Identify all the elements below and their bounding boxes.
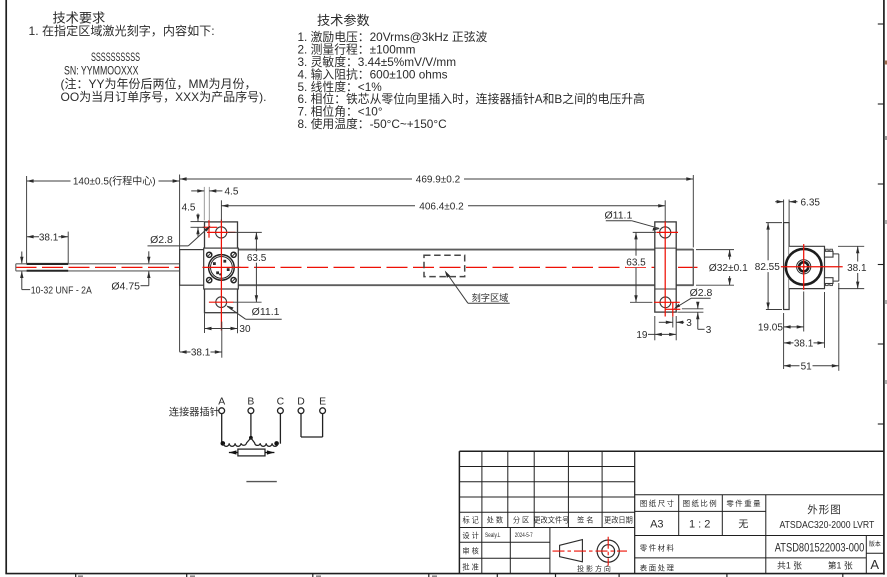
- dim Ø11.1 right leader: [606, 220, 632, 222]
- dim 3 vertical: [682, 308, 704, 310]
- svg-text:签 名: 签 名: [577, 516, 593, 525]
- svg-text:外形图: 外形图: [807, 504, 842, 516]
- svg-text:批 准: 批 准: [462, 563, 478, 572]
- side view upper tab: [826, 249, 829, 251]
- dim 6.35: [783, 200, 785, 223]
- dim 469.9±0.2: [692, 175, 694, 247]
- svg-text:连接器插针: 连接器插针: [169, 405, 220, 418]
- junction dot B: [249, 436, 253, 440]
- left block vertical red centerline: [220, 220, 222, 331]
- left block small hole red crosshair: [203, 226, 218, 228]
- secondary coil L2 (B-C): [251, 438, 278, 447]
- info grid verticals: [678, 495, 680, 536]
- wire pin B: [250, 414, 252, 438]
- svg-text:Ø11.1: Ø11.1: [252, 306, 280, 318]
- connector corner screws: [207, 252, 212, 257]
- svg-text:共1 张: 共1 张: [777, 560, 802, 570]
- main tube lower edge: [238, 284, 655, 286]
- right block vertical red centerline: [664, 221, 666, 317]
- right block bottom hole: [660, 297, 671, 308]
- svg-text:D: D: [297, 397, 305, 408]
- svg-text:A3: A3: [650, 518, 663, 530]
- side view center bore: [799, 262, 808, 271]
- svg-text:处 数: 处 数: [487, 516, 503, 525]
- svg-text:Ø32±0.1: Ø32±0.1: [709, 263, 748, 274]
- secondary coil L1 (A-B): [223, 438, 251, 447]
- svg-text:3: 3: [706, 325, 712, 336]
- dim 51: [838, 283, 840, 371]
- right border cut zone letters: [885, 61, 887, 65]
- side view red crosshair: [781, 266, 843, 268]
- svg-text:ATSDAC320-2000 LVRT: ATSDAC320-2000 LVRT: [780, 520, 875, 531]
- dim Ø32±0.1: [696, 249, 734, 251]
- right block top hole: [660, 227, 671, 238]
- svg-text:A: A: [218, 397, 225, 408]
- svg-text:140±0.5(行程中心): 140±0.5(行程中心): [73, 175, 156, 188]
- dim 406.4±0.2: [220, 200, 222, 220]
- sheet right border: [883, 0, 885, 575]
- wire D-E link: [301, 436, 323, 438]
- svg-text:1. 在指定区域激光刻字，内容如下:: 1. 在指定区域激光刻字，内容如下:: [29, 23, 215, 38]
- main tube upper edge: [238, 249, 655, 251]
- pin terminal C: [278, 408, 284, 414]
- projection red centerlines: [553, 550, 628, 552]
- junction dot C: [274, 441, 279, 446]
- svg-text:零件重量: 零件重量: [726, 499, 762, 508]
- svg-text:19.05: 19.05: [758, 323, 783, 334]
- side view middle circle: [797, 260, 811, 274]
- svg-text:38.1: 38.1: [191, 348, 211, 359]
- revision table verticals: [481, 451, 483, 527]
- dim 38.1 side right: [838, 245, 864, 247]
- ext line body start: [179, 175, 181, 352]
- svg-text:3: 3: [686, 318, 692, 329]
- left block bottom mounting hole: [216, 297, 227, 308]
- svg-text:51: 51: [801, 361, 813, 372]
- svg-text:更改日期: 更改日期: [604, 516, 633, 525]
- pin terminal A: [219, 408, 225, 414]
- svg-text:零件材料: 零件材料: [640, 544, 676, 553]
- dim Ø4.75 leader: [148, 251, 150, 263]
- pin terminal E: [320, 408, 326, 414]
- svg-text:标 记: 标 记: [463, 516, 479, 525]
- core arrow right: [265, 452, 274, 454]
- svg-text:(注：YY为年份后两位，MM为月份，: (注：YY为年份后两位，MM为月份，: [61, 76, 257, 91]
- svg-text:38.1: 38.1: [39, 232, 59, 243]
- svg-text:第1 张: 第1 张: [828, 559, 853, 570]
- junction dot A: [221, 441, 226, 446]
- svg-text:E: E: [319, 397, 326, 408]
- left block connector horizontal red centerline: [203, 266, 241, 268]
- engraving leader arrow: [446, 273, 468, 304]
- svg-text:2024-5-7: 2024-5-7: [515, 532, 533, 539]
- dim 4.5 horizontal: [203, 187, 205, 221]
- info grid horizontals: [635, 494, 884, 496]
- svg-text:8. 使用温度：-50°C~+150°C: 8. 使用温度：-50°C~+150°C: [298, 117, 448, 131]
- svg-text:设 计: 设 计: [462, 531, 478, 540]
- wire pin D: [300, 414, 302, 437]
- wire pin E: [322, 414, 324, 437]
- svg-text:82.55: 82.55: [755, 262, 780, 273]
- left block mid square: [204, 248, 239, 289]
- side view lower tab: [825, 278, 834, 284]
- tube right section: [676, 249, 693, 251]
- pin terminal B: [248, 408, 254, 414]
- bottom cut zone digits: [78, 575, 83, 577]
- side view main circle: [786, 249, 822, 285]
- dim 63.5 right: [633, 231, 657, 233]
- svg-text:406.4±0.2: 406.4±0.2: [419, 201, 464, 212]
- side view flange plate: [784, 223, 790, 310]
- projection target circles: [597, 540, 619, 562]
- svg-text:ATSD801522003-000: ATSD801522003-000: [775, 540, 865, 554]
- dim 38.1 side bottom: [783, 332, 785, 370]
- svg-text:更改文件号: 更改文件号: [533, 516, 569, 525]
- dim 38.1 thread: [67, 232, 69, 264]
- right block top hole red centerline: [657, 231, 679, 233]
- signature rows verticals: [481, 528, 483, 574]
- side view body square: [789, 246, 824, 288]
- bottom border fold tick stubs: [75, 574, 77, 577]
- svg-text:审 核: 审 核: [462, 547, 478, 556]
- leader Ø2.8 left: [148, 245, 189, 247]
- svg-text:19: 19: [636, 330, 648, 341]
- svg-text:Ø2.8: Ø2.8: [690, 287, 713, 299]
- dim 63.5 left: [228, 231, 262, 233]
- svg-text:4.5: 4.5: [182, 202, 196, 213]
- core rod: [16, 263, 180, 265]
- dim 82.55: [766, 222, 782, 224]
- svg-text:6.35: 6.35: [801, 197, 821, 208]
- body nose section: [180, 250, 205, 286]
- title block outer left edge: [458, 451, 460, 573]
- projection trapezoid symbol: [560, 540, 583, 562]
- svg-text:469.9±0.2: 469.9±0.2: [416, 175, 461, 186]
- core slider arrow: [229, 450, 237, 454]
- svg-text:63.5: 63.5: [247, 253, 267, 264]
- dim Ø11.1 left leader: [226, 306, 233, 311]
- pin terminal D: [298, 408, 304, 414]
- right block section lines: [655, 247, 676, 249]
- svg-text:10-32 UNF - 2A: 10-32 UNF - 2A: [31, 286, 92, 297]
- dim 38.1 block offset: [221, 322, 223, 358]
- svg-text:38.1: 38.1: [794, 339, 814, 350]
- revision table horizontals: [459, 466, 634, 468]
- svg-text:C: C: [277, 397, 285, 408]
- svg-text:Ø2.8: Ø2.8: [150, 234, 173, 246]
- main title divider: [634, 451, 636, 573]
- svg-text:30: 30: [239, 324, 251, 335]
- svg-text:分 区: 分 区: [513, 516, 529, 525]
- svg-text:4.5: 4.5: [225, 187, 239, 198]
- left block top hole red centerline: [207, 231, 236, 233]
- svg-text:Ø4.75: Ø4.75: [111, 280, 140, 292]
- svg-text:刻字区域: 刻字区域: [472, 292, 509, 303]
- dim 140±0.5 行程中心: [26, 176, 28, 263]
- svg-text:版本: 版本: [869, 540, 881, 548]
- connector outer ring: [209, 255, 235, 281]
- svg-text:SN: YYMMOOXXX: SN: YYMMOOXXX: [64, 63, 139, 77]
- rod thread 10-32 section: [27, 263, 69, 265]
- dim 4.5 vertical: [191, 221, 204, 223]
- wire pin C: [279, 414, 281, 444]
- left block bottom hole red centerline: [209, 301, 234, 303]
- svg-text:B: B: [247, 397, 254, 408]
- svg-text:Ø11.1: Ø11.1: [604, 209, 632, 221]
- dim 19.05: [783, 313, 785, 332]
- svg-text:OO为当月订单序号，XXX为产品序号).: OO为当月订单序号，XXX为产品序号).: [61, 89, 267, 104]
- right block small hole red crosshair: [665, 308, 680, 310]
- svg-text:投 影 方 向: 投 影 方 向: [577, 564, 611, 573]
- dim Ø2.8 right leader: [691, 297, 711, 299]
- connector inner ring: [211, 257, 233, 279]
- sheet bottom border: [5, 573, 884, 575]
- svg-text:表面处理: 表面处理: [640, 564, 676, 573]
- signature rows horizontals: [459, 541, 550, 543]
- dim 3 horizontal: [672, 317, 674, 328]
- svg-text:1 : 2: 1 : 2: [689, 518, 710, 530]
- right border zone ticks: [878, 23, 884, 25]
- revision header row line: [459, 527, 634, 529]
- right block bottom hole red centerline: [654, 301, 680, 303]
- svg-text:技术参数: 技术参数: [317, 12, 370, 28]
- right block outline: [655, 222, 676, 312]
- engraving area dashed rect 刻字区域: [424, 255, 465, 276]
- svg-text:63.5: 63.5: [626, 257, 646, 268]
- title block outer top edge: [459, 450, 884, 452]
- core body: [238, 449, 265, 456]
- dim 30: [204, 313, 206, 333]
- svg-text:A: A: [870, 557, 879, 572]
- svg-text:38.1: 38.1: [847, 263, 867, 274]
- svg-text:Sealy.L: Sealy.L: [485, 532, 501, 539]
- core reference line: [246, 481, 276, 483]
- thread label 10-32 UNF - 2A leader: [21, 252, 23, 264]
- svg-text:图纸尺寸: 图纸尺寸: [640, 499, 676, 508]
- sheet left border: [5, 0, 7, 574]
- connector pin contacts: [223, 260, 226, 263]
- svg-text:无: 无: [738, 519, 748, 530]
- svg-text:SSSSSSSSSS: SSSSSSSSSS: [91, 50, 140, 64]
- dim 19: [654, 316, 656, 340]
- svg-text:图纸比例: 图纸比例: [683, 499, 719, 508]
- wire pin A: [221, 414, 223, 444]
- left block outer outline: [205, 222, 238, 313]
- left block top mounting hole: [216, 227, 227, 238]
- side view tab bracket: [833, 253, 839, 255]
- red main centerline: [16, 266, 698, 268]
